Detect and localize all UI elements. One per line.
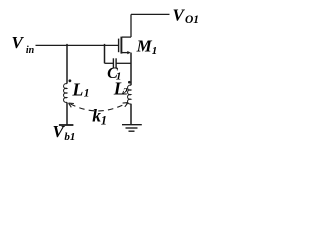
svg-text:V: V (173, 5, 186, 24)
svg-text:1: 1 (152, 45, 158, 57)
svg-text:2: 2 (122, 88, 128, 98)
svg-text:b1: b1 (64, 131, 75, 143)
svg-text:L: L (71, 79, 83, 99)
svg-text:in: in (26, 45, 35, 56)
svg-text:M: M (136, 37, 153, 56)
svg-text:O1: O1 (185, 14, 199, 26)
svg-text:V: V (12, 33, 25, 52)
svg-text:1: 1 (84, 88, 90, 100)
svg-text:1: 1 (101, 114, 107, 128)
